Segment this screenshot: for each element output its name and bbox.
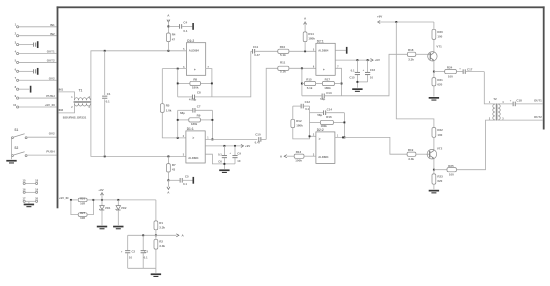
svg-text:100: 100 [448, 75, 453, 79]
op-amp D2:2 [316, 128, 335, 163]
connector X1 pin 9 (PUSH) [15, 94, 57, 99]
svg-text:IN2: IN2 [50, 32, 55, 36]
connector X1 pin 2 (IN2) [15, 32, 57, 37]
ground for C4 [192, 23, 194, 30]
capacitor C2 [121, 235, 136, 268]
wire S1/S2 common [11, 138, 13, 159]
svg-text:R1: R1 [159, 221, 163, 225]
svg-text:D1:1: D1:1 [187, 127, 194, 131]
svg-text:58p: 58p [317, 113, 322, 117]
svg-text:C11: C11 [253, 45, 259, 49]
svg-text:>: > [192, 136, 194, 140]
resistor R15 [302, 77, 316, 90]
svg-text:R11: R11 [280, 60, 286, 64]
wire R20 to VT1 collector [433, 39, 435, 52]
capacitor C3 [141, 235, 149, 268]
resistor R27 [78, 211, 87, 220]
svg-text:+: + [323, 68, 325, 72]
node A port (bottom) [176, 233, 184, 237]
svg-text:5.1k: 5.1k [280, 70, 286, 74]
zener diode VD2 [116, 200, 127, 225]
svg-text:IN2: IN2 [59, 108, 64, 112]
svg-text:C10: C10 [255, 133, 261, 137]
svg-text:+9V: +9V [98, 188, 103, 192]
capacitor C10 [255, 133, 267, 145]
svg-text:R23: R23 [437, 174, 443, 178]
svg-text:VD2: VD2 [121, 206, 127, 210]
resistor R23 [432, 170, 443, 190]
svg-text:100: 100 [437, 133, 442, 137]
svg-text:C15: C15 [349, 75, 355, 79]
wire R7 to C5 node [167, 172, 169, 181]
node A port (R14) [304, 17, 307, 32]
svg-text:180k: 180k [324, 86, 331, 90]
svg-text:VT2: VT2 [437, 146, 443, 150]
wire IN2 to T1 [58, 103, 74, 113]
wire rail to R1 [155, 200, 157, 221]
wire +9V rail to R20 [378, 21, 434, 23]
capacitor C16 [363, 60, 376, 82]
sheet border top edge [57, 6, 545, 8]
wire D1 ground pin row [205, 154, 235, 164]
wire T2 top-left [494, 103, 496, 105]
svg-text:10R: 10R [80, 216, 85, 220]
wire D1:2 feedback left leg [177, 69, 179, 97]
svg-text:4-58p: 4-58p [189, 98, 197, 102]
wire R19 to VT2 base [416, 153, 430, 155]
transistor VT2 [427, 146, 443, 159]
op-amp D2:1 [316, 39, 335, 75]
svg-text:C16: C16 [370, 68, 376, 72]
wire S2 to border (PUSH) [27, 150, 56, 156]
ground for divider [151, 273, 161, 277]
resistor R4 [167, 33, 176, 42]
wire D1:2 inverting node [162, 68, 186, 70]
wire R26/R27 rejoin [87, 199, 94, 215]
wire T2 top-right to C18 [498, 103, 513, 105]
ground for C5 [193, 177, 195, 184]
wire R25 to T2 bottom [456, 120, 495, 170]
wire T2 bottom-right (OUT2) [498, 115, 543, 120]
+9V port (D1) [241, 144, 250, 148]
svg-text:C1: C1 [107, 92, 111, 96]
svg-text:C7: C7 [197, 105, 201, 109]
svg-text:R24: R24 [447, 66, 453, 70]
jumper terminal pair 17-20 [22, 196, 38, 202]
svg-text:R22: R22 [437, 128, 443, 132]
svg-text:BOURNS_DR331: BOURNS_DR331 [63, 115, 87, 119]
svg-text:10: 10 [237, 159, 241, 163]
svg-text:+: + [194, 68, 196, 72]
zener diode VD1 [100, 200, 111, 225]
svg-text:VD1: VD1 [105, 206, 111, 210]
wire node A row [128, 234, 177, 236]
wire R5 to D1:1 input [162, 112, 186, 137]
wire +9V_IN split [70, 199, 78, 215]
switch S1 [11, 128, 27, 139]
wire R22 to VT2 collector [433, 137, 435, 150]
svg-text:T1: T1 [79, 88, 83, 92]
svg-text:3.3k: 3.3k [408, 58, 414, 62]
wire D2:1 output to R18 [342, 54, 408, 96]
capacitor C5 [168, 174, 192, 186]
wire caps to ground [223, 163, 225, 169]
svg-text:3.3k: 3.3k [159, 244, 165, 248]
resistor R24 [434, 66, 457, 79]
wire +9V rail to R22 [396, 22, 434, 128]
+9V port (D2) [371, 58, 380, 62]
capacitor C1 [102, 51, 111, 157]
svg-text:OUT2: OUT2 [534, 115, 542, 119]
connector X1 pin 1 (IN1) [15, 23, 57, 28]
svg-text:R9: R9 [197, 114, 201, 118]
svg-text:0.1: 0.1 [144, 255, 148, 259]
svg-text:R10: R10 [280, 45, 286, 49]
ground for VD2 [113, 226, 123, 230]
svg-text:5.1k: 5.1k [307, 86, 313, 90]
svg-text:19: 19 [35, 187, 39, 191]
op-amp D2:1 pin numbers [313, 50, 339, 69]
svg-text:1.0k: 1.0k [166, 108, 172, 112]
op-amp D1:2 pin numbers [183, 49, 209, 69]
resistor R22 [432, 128, 443, 138]
wire VT2 emitter node [433, 158, 435, 170]
wire D2:2 output to R19 [335, 137, 407, 154]
svg-text:180k: 180k [191, 122, 198, 126]
ground for terminal 17-20 [24, 202, 34, 207]
svg-text:20: 20 [35, 196, 39, 200]
svg-text:D1:2: D1:2 [187, 39, 194, 43]
capacitor C4 [168, 20, 192, 33]
op-amp D1:1 [186, 127, 205, 163]
svg-text:R13: R13 [296, 150, 302, 154]
capacitor C13 [302, 91, 342, 101]
ground for C15/C16 [352, 88, 362, 92]
svg-text:100: 100 [437, 35, 442, 39]
wire D1:1 feedback right leg [211, 110, 213, 140]
svg-text:5.1k: 5.1k [280, 53, 286, 57]
svg-text:18: 18 [35, 178, 39, 182]
svg-text:0.1: 0.1 [106, 99, 110, 103]
capacitor C8 [178, 91, 212, 102]
svg-text:ALD884: ALD884 [188, 156, 199, 160]
svg-text:0.47: 0.47 [254, 53, 260, 57]
svg-text:R19: R19 [408, 148, 414, 152]
svg-text:0.1: 0.1 [351, 68, 355, 72]
+9V port (top rail) [377, 15, 382, 24]
svg-text:R18: R18 [408, 48, 414, 52]
resistor R18 [407, 48, 415, 62]
resistor R19 [407, 148, 416, 161]
svg-text:C8: C8 [197, 91, 201, 95]
node junction C1 bottom [104, 155, 106, 157]
ground port D2:1 pin [335, 47, 347, 54]
connector X1 pin 4 (OUT1) [15, 49, 57, 54]
resistor R21 [432, 72, 443, 97]
transformer T1 label [79, 88, 83, 92]
resistor R8 [178, 77, 212, 89]
capacitor C15 [349, 60, 360, 82]
svg-text:180k: 180k [308, 37, 315, 41]
connector X1 pin 6 with capacitor to chassis ground [15, 67, 39, 75]
svg-text:OUT1: OUT1 [534, 99, 542, 103]
switch S2 [11, 146, 27, 156]
svg-text:68p: 68p [180, 111, 185, 115]
net label +9V_IN [59, 196, 69, 200]
svg-text:R12: R12 [296, 119, 302, 123]
ground for R21 [429, 97, 439, 101]
node junction D2:2 output [342, 136, 344, 138]
svg-text:C5: C5 [185, 174, 189, 178]
svg-text:0.1: 0.1 [218, 152, 222, 156]
sheet border left edge [57, 6, 59, 208]
svg-text:IN1: IN1 [59, 88, 64, 92]
svg-text:0.1: 0.1 [305, 107, 309, 111]
svg-text:S1: S1 [14, 128, 18, 132]
svg-text:R26: R26 [80, 196, 85, 200]
wire VT1 emitter node [433, 60, 435, 72]
svg-text:R17: R17 [325, 77, 331, 81]
node junction R8 right [211, 82, 213, 84]
wire R12 to D2:2 input [293, 128, 310, 139]
node A port (top) [167, 13, 170, 22]
svg-text:+9V: +9V [245, 144, 250, 148]
svg-text:10: 10 [370, 75, 374, 79]
sheet border right edge [543, 6, 545, 129]
svg-text:OUT1: OUT1 [47, 50, 55, 54]
svg-text:180k: 180k [296, 124, 303, 128]
capacitor C6 [218, 146, 227, 164]
resistor R17 [316, 77, 342, 90]
svg-text:D2:2: D2:2 [317, 128, 324, 132]
svg-text:+9V: +9V [377, 15, 382, 19]
wire D1 +9V pin row [205, 145, 242, 147]
wire R10 to D2:1 input [289, 50, 316, 52]
svg-text:+9V: +9V [375, 58, 380, 62]
svg-text:0.1: 0.1 [183, 182, 187, 186]
svg-text:10R: 10R [80, 201, 85, 205]
svg-text:C9: C9 [237, 152, 241, 156]
node junction C1 top [104, 50, 106, 52]
wire D1:2 output to feedback [206, 69, 212, 97]
op-amp D1:2 [186, 39, 205, 76]
wire R11 to D2:1 input [289, 67, 316, 69]
wire D1:2 stage output [212, 51, 251, 97]
svg-text:R7: R7 [172, 163, 176, 167]
wire R1 to node A [155, 230, 157, 236]
svg-text:43: 43 [172, 168, 176, 172]
transformer T1 windings [74, 98, 92, 106]
node junction D1:1 feedback left [177, 137, 179, 139]
svg-text:D2:1: D2:1 [317, 39, 324, 43]
resistor R25 [434, 164, 457, 177]
resistor R2 [154, 235, 165, 249]
ground for R23 [429, 190, 439, 194]
wire node A to input [167, 22, 169, 51]
node A port (R13) [280, 155, 287, 159]
svg-text:R27: R27 [80, 211, 85, 215]
svg-text:3.3k: 3.3k [408, 157, 414, 161]
jumper terminal pair 16-19 [22, 187, 38, 193]
transistor VT1 [428, 45, 442, 61]
wire T1 secondary top to D1:2 input [91, 51, 187, 101]
svg-text:180k: 180k [192, 85, 199, 89]
svg-text:+9V_IN: +9V_IN [59, 196, 69, 200]
resistor R9 [178, 114, 213, 126]
svg-text:C4: C4 [183, 20, 187, 24]
resistor R13 [287, 150, 316, 162]
wire ground row [128, 268, 156, 273]
op-amp D1:1 pin numbers [183, 136, 210, 157]
resistor R14 [303, 32, 315, 52]
resistor R16 [310, 115, 345, 128]
resistor R10 [278, 45, 289, 57]
svg-text:R21: R21 [437, 78, 443, 82]
net label OUT1 [534, 99, 542, 103]
svg-text:R8: R8 [193, 77, 197, 81]
svg-text:10: 10 [129, 255, 133, 259]
svg-text:C13: C13 [326, 91, 332, 95]
capacitor C14 [310, 108, 345, 117]
wire D2:2 feedback right leg [343, 113, 345, 139]
wire D1:1 output row [205, 138, 257, 140]
connector X1 pin 8 with ground bar [15, 85, 32, 93]
node junction R8 left [177, 82, 179, 84]
resistor R26 [78, 196, 87, 205]
node junction R7 top [167, 155, 169, 157]
wire C15/C16 to ground [356, 81, 367, 88]
wire C17 to T2 top [484, 72, 495, 104]
transformer T2 label [493, 97, 497, 101]
resistor R20 [432, 22, 443, 39]
svg-text:PUSH: PUSH [46, 150, 54, 154]
wire R2 to ground row [155, 249, 157, 268]
svg-text:VT1: VT1 [436, 45, 442, 49]
svg-text:C17: C17 [467, 67, 473, 71]
svg-text:47: 47 [172, 37, 176, 41]
svg-text:ALD884: ALD884 [318, 49, 329, 53]
svg-text:3.3k: 3.3k [159, 226, 165, 230]
+9V port (up arrow) [98, 188, 103, 200]
svg-text:0.1: 0.1 [183, 29, 187, 33]
svg-text:OUT2: OUT2 [47, 59, 55, 63]
capacitor C12 [293, 100, 311, 111]
capacitor C17 [456, 67, 484, 74]
transformer T1 part label [63, 115, 87, 119]
transformer T1 pin numbers [71, 96, 90, 109]
svg-text:OV2: OV2 [49, 132, 55, 136]
svg-text:ALD884: ALD884 [189, 49, 200, 53]
connector X1 pin 3 with capacitor to chassis ground [15, 41, 39, 49]
svg-text:PUSH: PUSH [46, 94, 54, 98]
svg-text:R15: R15 [306, 77, 312, 81]
transformer T2 pin numbers [489, 101, 504, 120]
wire D2:1 +9V pin row [335, 59, 371, 61]
wire T2 bottom-left [494, 119, 496, 121]
svg-text:R2: R2 [159, 239, 163, 243]
node junction R4 bottom [167, 50, 169, 52]
svg-text:IN1: IN1 [50, 23, 55, 27]
capacitor C9 [229, 146, 241, 164]
svg-text:C14: C14 [327, 108, 333, 112]
op-amp D2:2 pin numbers [313, 135, 339, 157]
wire T1 secondary bottom to D1:1 input [91, 103, 186, 156]
svg-text:R16: R16 [326, 115, 332, 119]
ground for VD1 [97, 226, 107, 230]
capacitor C18 [510, 99, 543, 107]
ground for S1/S2 [6, 160, 16, 164]
wire R18 to VT1 base [416, 53, 430, 55]
svg-text:58p: 58p [320, 97, 325, 101]
svg-text:620: 620 [437, 83, 442, 87]
resistor R12 [291, 106, 303, 128]
svg-text:R5: R5 [166, 104, 170, 108]
svg-text:ALD884: ALD884 [318, 155, 329, 159]
svg-text:17: 17 [22, 196, 26, 200]
wire D2:1 feedback left leg [301, 68, 303, 96]
wire D2:2 feedback left leg [309, 106, 316, 137]
resistor R11 [278, 60, 289, 73]
svg-text:C12: C12 [305, 100, 311, 104]
svg-text:16: 16 [22, 187, 26, 191]
svg-text:S2: S2 [14, 146, 18, 150]
node A port (below R7) [167, 180, 170, 194]
svg-text:R14: R14 [308, 32, 314, 36]
resistor R5 [160, 69, 171, 113]
node junction C4 tap [167, 25, 169, 27]
resistor R7 [167, 156, 177, 172]
jumper terminal pair 15-18 [22, 178, 38, 184]
svg-text:C3: C3 [144, 250, 148, 254]
svg-text:15: 15 [22, 178, 26, 182]
svg-text:T2: T2 [493, 97, 497, 101]
svg-text:OV2: OV2 [49, 76, 55, 80]
node junction D1:2 feedback left [177, 68, 179, 70]
svg-text:100: 100 [449, 173, 454, 177]
svg-text:+9V_IN: +9V_IN [45, 103, 55, 107]
connector X1 pin 7 (OV2) [15, 76, 57, 81]
wire +9V local rail [93, 199, 155, 201]
svg-text:R20: R20 [437, 30, 443, 34]
svg-text:R4: R4 [172, 33, 176, 37]
wire IN1 to T1 [58, 88, 74, 101]
wire D2:1 output to feedback [335, 68, 342, 96]
svg-text:100k: 100k [295, 158, 302, 162]
resistor R1 [154, 221, 165, 230]
ground for C6/C9 [219, 169, 229, 173]
svg-text:C6: C6 [218, 160, 222, 164]
svg-text:C18: C18 [516, 99, 522, 103]
wire S1 to border (OV2) [27, 132, 56, 138]
svg-text:10: 10 [13, 103, 17, 107]
svg-text:R25: R25 [448, 164, 454, 168]
svg-text:620: 620 [437, 179, 442, 183]
connector X1 pin 10 (+9V_IN) [13, 103, 56, 108]
wire D1:1 feedback left leg [177, 110, 179, 138]
transformer T2 windings [493, 104, 500, 121]
svg-text:C2: C2 [132, 250, 136, 254]
connector X1 pin 5 (OUT2) [15, 58, 57, 63]
wire C10 up to R11 [266, 68, 278, 139]
svg-text:0.47: 0.47 [255, 140, 261, 144]
svg-text:>: > [319, 137, 321, 141]
capacitor C11 [251, 45, 278, 57]
capacitor C7 [178, 105, 213, 115]
